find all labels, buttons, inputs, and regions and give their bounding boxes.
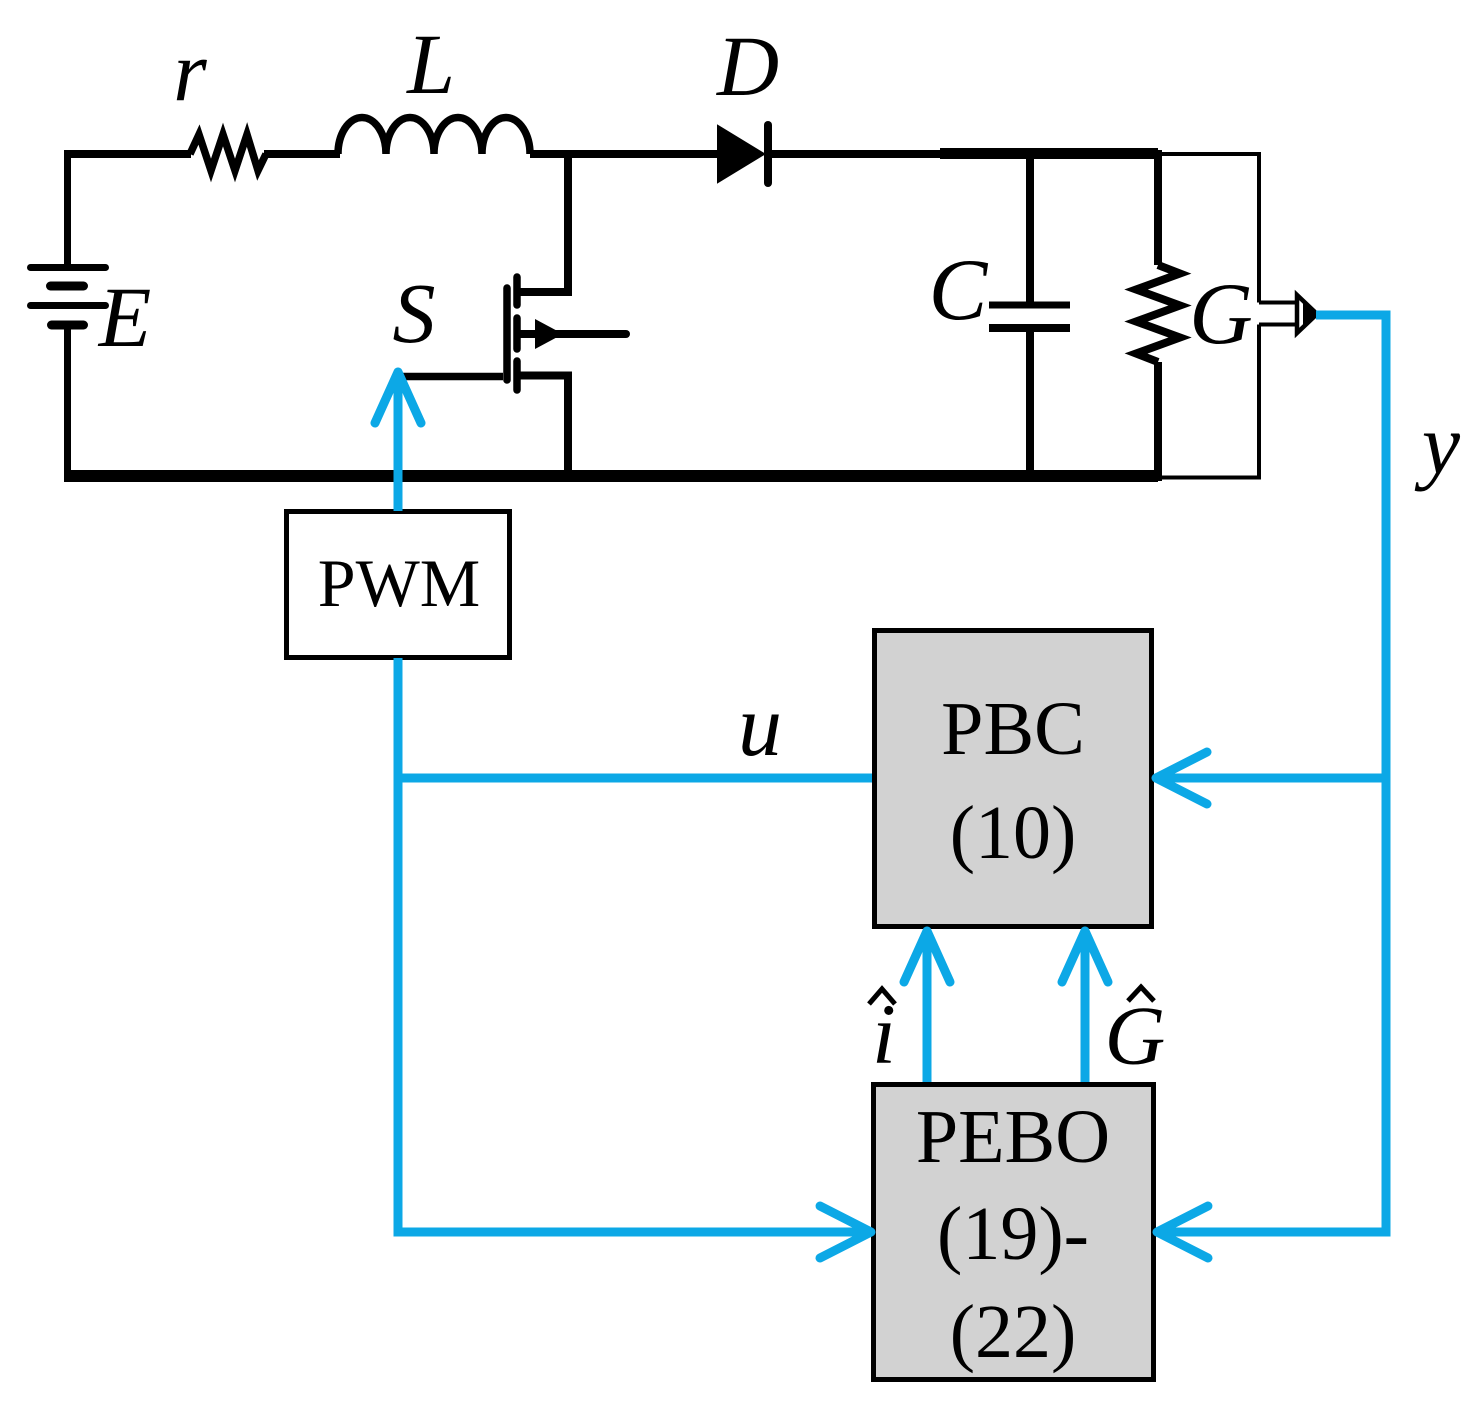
label G-hat accent [1128, 987, 1154, 1001]
battery E plate long 1 [31, 264, 106, 271]
transistor S channel dash top [513, 277, 521, 305]
transistor S gate bar [503, 288, 511, 380]
svg-text:E: E [97, 269, 152, 365]
transistor S body arrow [535, 319, 563, 349]
inductor L [338, 118, 530, 154]
wire G-hat arrow [1081, 933, 1090, 1082]
PBC box [875, 631, 1152, 927]
wire bottom bus [64, 470, 1158, 482]
battery E plate short 2 [52, 321, 84, 330]
wire output branch lower [1257, 325, 1261, 480]
svg-text:PBC: PBC [941, 687, 1085, 771]
wire thin top right [1158, 152, 1261, 156]
battery E top lead [64, 150, 71, 264]
transistor S channel dash middle [513, 318, 521, 349]
resistor r [190, 135, 266, 171]
wire between r and L [264, 150, 340, 158]
arrowhead i-hat [904, 931, 950, 982]
wire thin bottom right [1158, 476, 1261, 480]
arrowhead into PBC right [1156, 752, 1207, 804]
output port tip [1303, 303, 1319, 325]
wire y to PBC [1158, 774, 1386, 783]
wire between L and D [530, 150, 719, 158]
svg-text:L: L [405, 16, 455, 112]
transistor S body lead line [520, 330, 626, 338]
capacitor C top lead [1026, 154, 1034, 302]
wire i-hat arrow [923, 933, 932, 1082]
wire top bus overlay thick [940, 148, 1158, 159]
svg-text:S: S [393, 265, 436, 361]
wire top bus right segment [770, 150, 1158, 158]
svg-text:r: r [173, 23, 207, 119]
label i-hat accent [869, 989, 895, 1004]
output port triangle [1297, 295, 1317, 333]
svg-text:(10): (10) [950, 791, 1077, 875]
arrowhead into PEBO right [1157, 1206, 1208, 1258]
svg-text:C: C [929, 242, 989, 339]
svg-text:u: u [738, 678, 782, 775]
wire PWM gate signal [394, 373, 403, 511]
wire u vertical [394, 658, 403, 1237]
diode D cathode bar [764, 125, 772, 183]
wire u horizontal to PBC [398, 774, 872, 783]
battery E plate long 2 [31, 302, 106, 309]
PWM box [287, 512, 510, 658]
PEBO box [874, 1085, 1154, 1380]
wire y from port [1160, 315, 1386, 1232]
arrowhead G-hat [1062, 931, 1108, 982]
arrowhead gate [375, 372, 421, 423]
svg-text:(19)-: (19)- [937, 1192, 1089, 1276]
svg-text:D: D [716, 18, 779, 114]
svg-text:G: G [1105, 990, 1166, 1083]
battery E bottom lead [64, 325, 71, 480]
transistor S drain branch [516, 154, 568, 292]
resistor G top lead [1154, 150, 1162, 265]
wire top bus left segment [64, 150, 191, 158]
wire output branch upper [1257, 152, 1261, 303]
capacitor C plate top [989, 302, 1070, 309]
svg-text:PWM: PWM [318, 545, 480, 621]
transistor S channel dash bottom [513, 361, 521, 390]
resistor G zigzag [1136, 265, 1180, 362]
capacitor C plate bottom [989, 324, 1070, 332]
capacitor C bottom lead [1026, 331, 1034, 476]
transistor S gate lead [398, 373, 503, 381]
port stub lower [1259, 323, 1297, 327]
battery E plate short 1 [51, 282, 84, 291]
arrowhead into PEBO left [820, 1206, 871, 1258]
port stub upper [1259, 301, 1297, 305]
svg-text:(22): (22) [950, 1290, 1077, 1374]
wire u to PEBO [394, 1228, 869, 1237]
svg-text:PEBO: PEBO [916, 1095, 1110, 1179]
transistor S source branch [520, 376, 568, 477]
resistor G bottom lead [1154, 362, 1162, 481]
diode D triangle [718, 126, 764, 182]
svg-text:G: G [1189, 266, 1253, 363]
svg-text:y: y [1414, 396, 1461, 492]
